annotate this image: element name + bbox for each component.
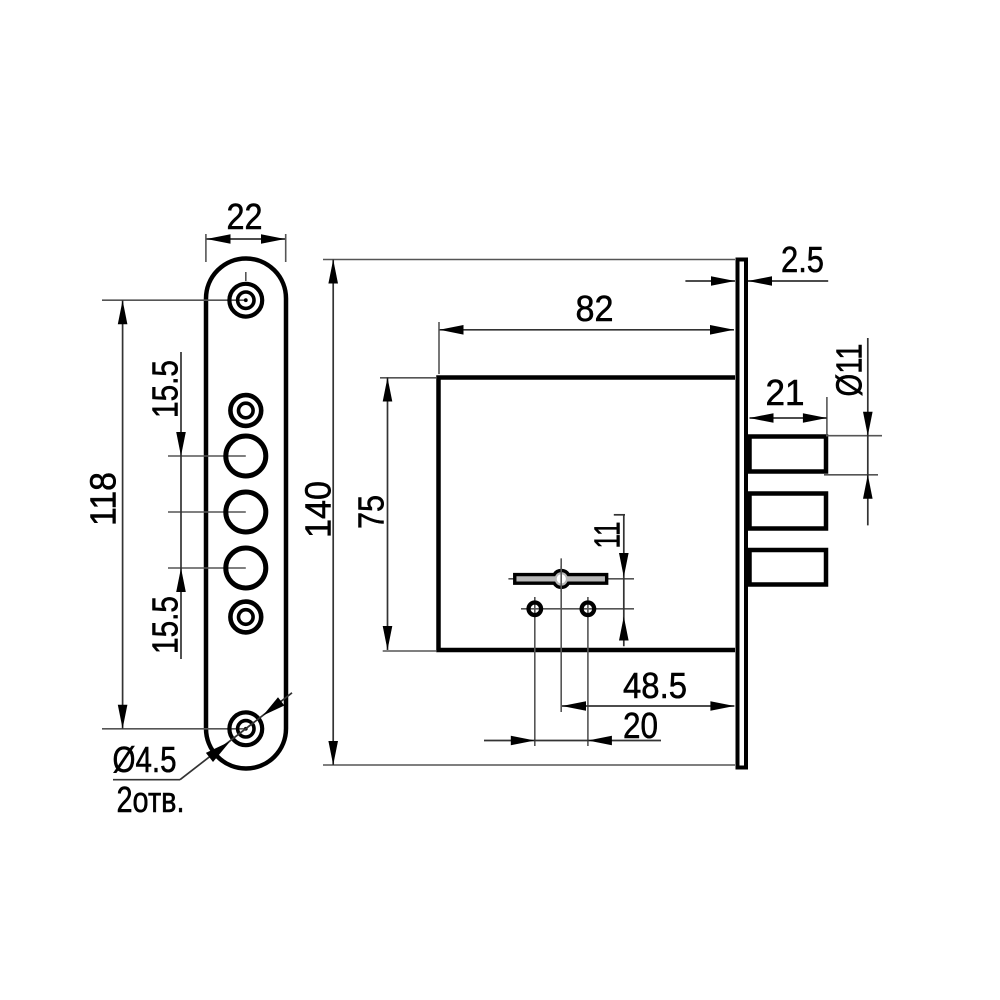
- centerline hole H1 horizontal: [102, 299, 247, 301]
- bolt B3: [750, 550, 827, 585]
- dimension diameter 11: [824, 338, 882, 525]
- svg-text:2отв.: 2отв.: [117, 779, 185, 820]
- screw hole S1 centerline vertical: [534, 597, 536, 746]
- svg-text:Ø4.5: Ø4.5: [113, 739, 177, 780]
- hole H4: [226, 492, 266, 532]
- centerline hole H5: [168, 567, 246, 569]
- svg-text:82: 82: [576, 288, 614, 329]
- svg-text:21: 21: [766, 372, 805, 413]
- svg-text:48.5: 48.5: [623, 665, 687, 706]
- svg-text:118: 118: [83, 472, 124, 526]
- svg-text:140: 140: [298, 481, 339, 538]
- dimension 21: [750, 372, 827, 434]
- dimension 118: [83, 300, 128, 729]
- svg-text:75: 75: [351, 495, 392, 529]
- bolt B1: [750, 437, 827, 472]
- faceplate front view outline: [206, 259, 286, 769]
- screw hole S2: [582, 603, 595, 616]
- svg-text:11: 11: [587, 522, 628, 549]
- screw hole S1: [529, 603, 542, 616]
- leader diameter 4.5 2 holes: [113, 693, 293, 820]
- key cam lever: [515, 566, 607, 592]
- svg-text:Ø11: Ø11: [829, 344, 870, 397]
- dimension 2.5: [685, 239, 828, 286]
- svg-text:20: 20: [623, 705, 658, 746]
- svg-text:2.5: 2.5: [781, 239, 824, 280]
- dimension 22: [206, 196, 286, 262]
- svg-text:15.5: 15.5: [145, 596, 186, 654]
- bolt B2: [750, 494, 827, 529]
- hole H2 double ring: [230, 395, 261, 426]
- centerline hole H1 vertical tick: [245, 272, 247, 281]
- dimension 15.5 lower: [145, 568, 186, 654]
- centerline hole H3: [168, 455, 246, 457]
- dimension 48.5: [562, 665, 734, 711]
- svg-text:22: 22: [227, 196, 263, 237]
- faceplate side view: [738, 260, 747, 768]
- dimension 15.5 upper: [145, 352, 186, 659]
- hole H3: [226, 436, 266, 476]
- screw hole H1: [229, 284, 262, 317]
- screw hole S2 centerline vertical: [587, 597, 589, 746]
- key cam centerline vertical: [560, 558, 562, 712]
- screw holes centerline horizontal: [521, 608, 634, 610]
- lock body outline: [439, 378, 736, 651]
- key cam centerline horizontal: [508, 578, 634, 580]
- dimension 82: [439, 288, 734, 374]
- dimension 140: [298, 260, 736, 766]
- hole H5: [226, 548, 266, 588]
- hole H6 double ring: [230, 602, 261, 633]
- svg-text:15.5: 15.5: [145, 360, 186, 418]
- dimension 75: [351, 378, 437, 652]
- centerline hole H4: [168, 511, 246, 513]
- dimension 20: [484, 705, 661, 746]
- centerline hole H7 horizontal: [102, 728, 247, 730]
- dimension 11: [587, 514, 629, 646]
- screw hole H7: [229, 712, 262, 745]
